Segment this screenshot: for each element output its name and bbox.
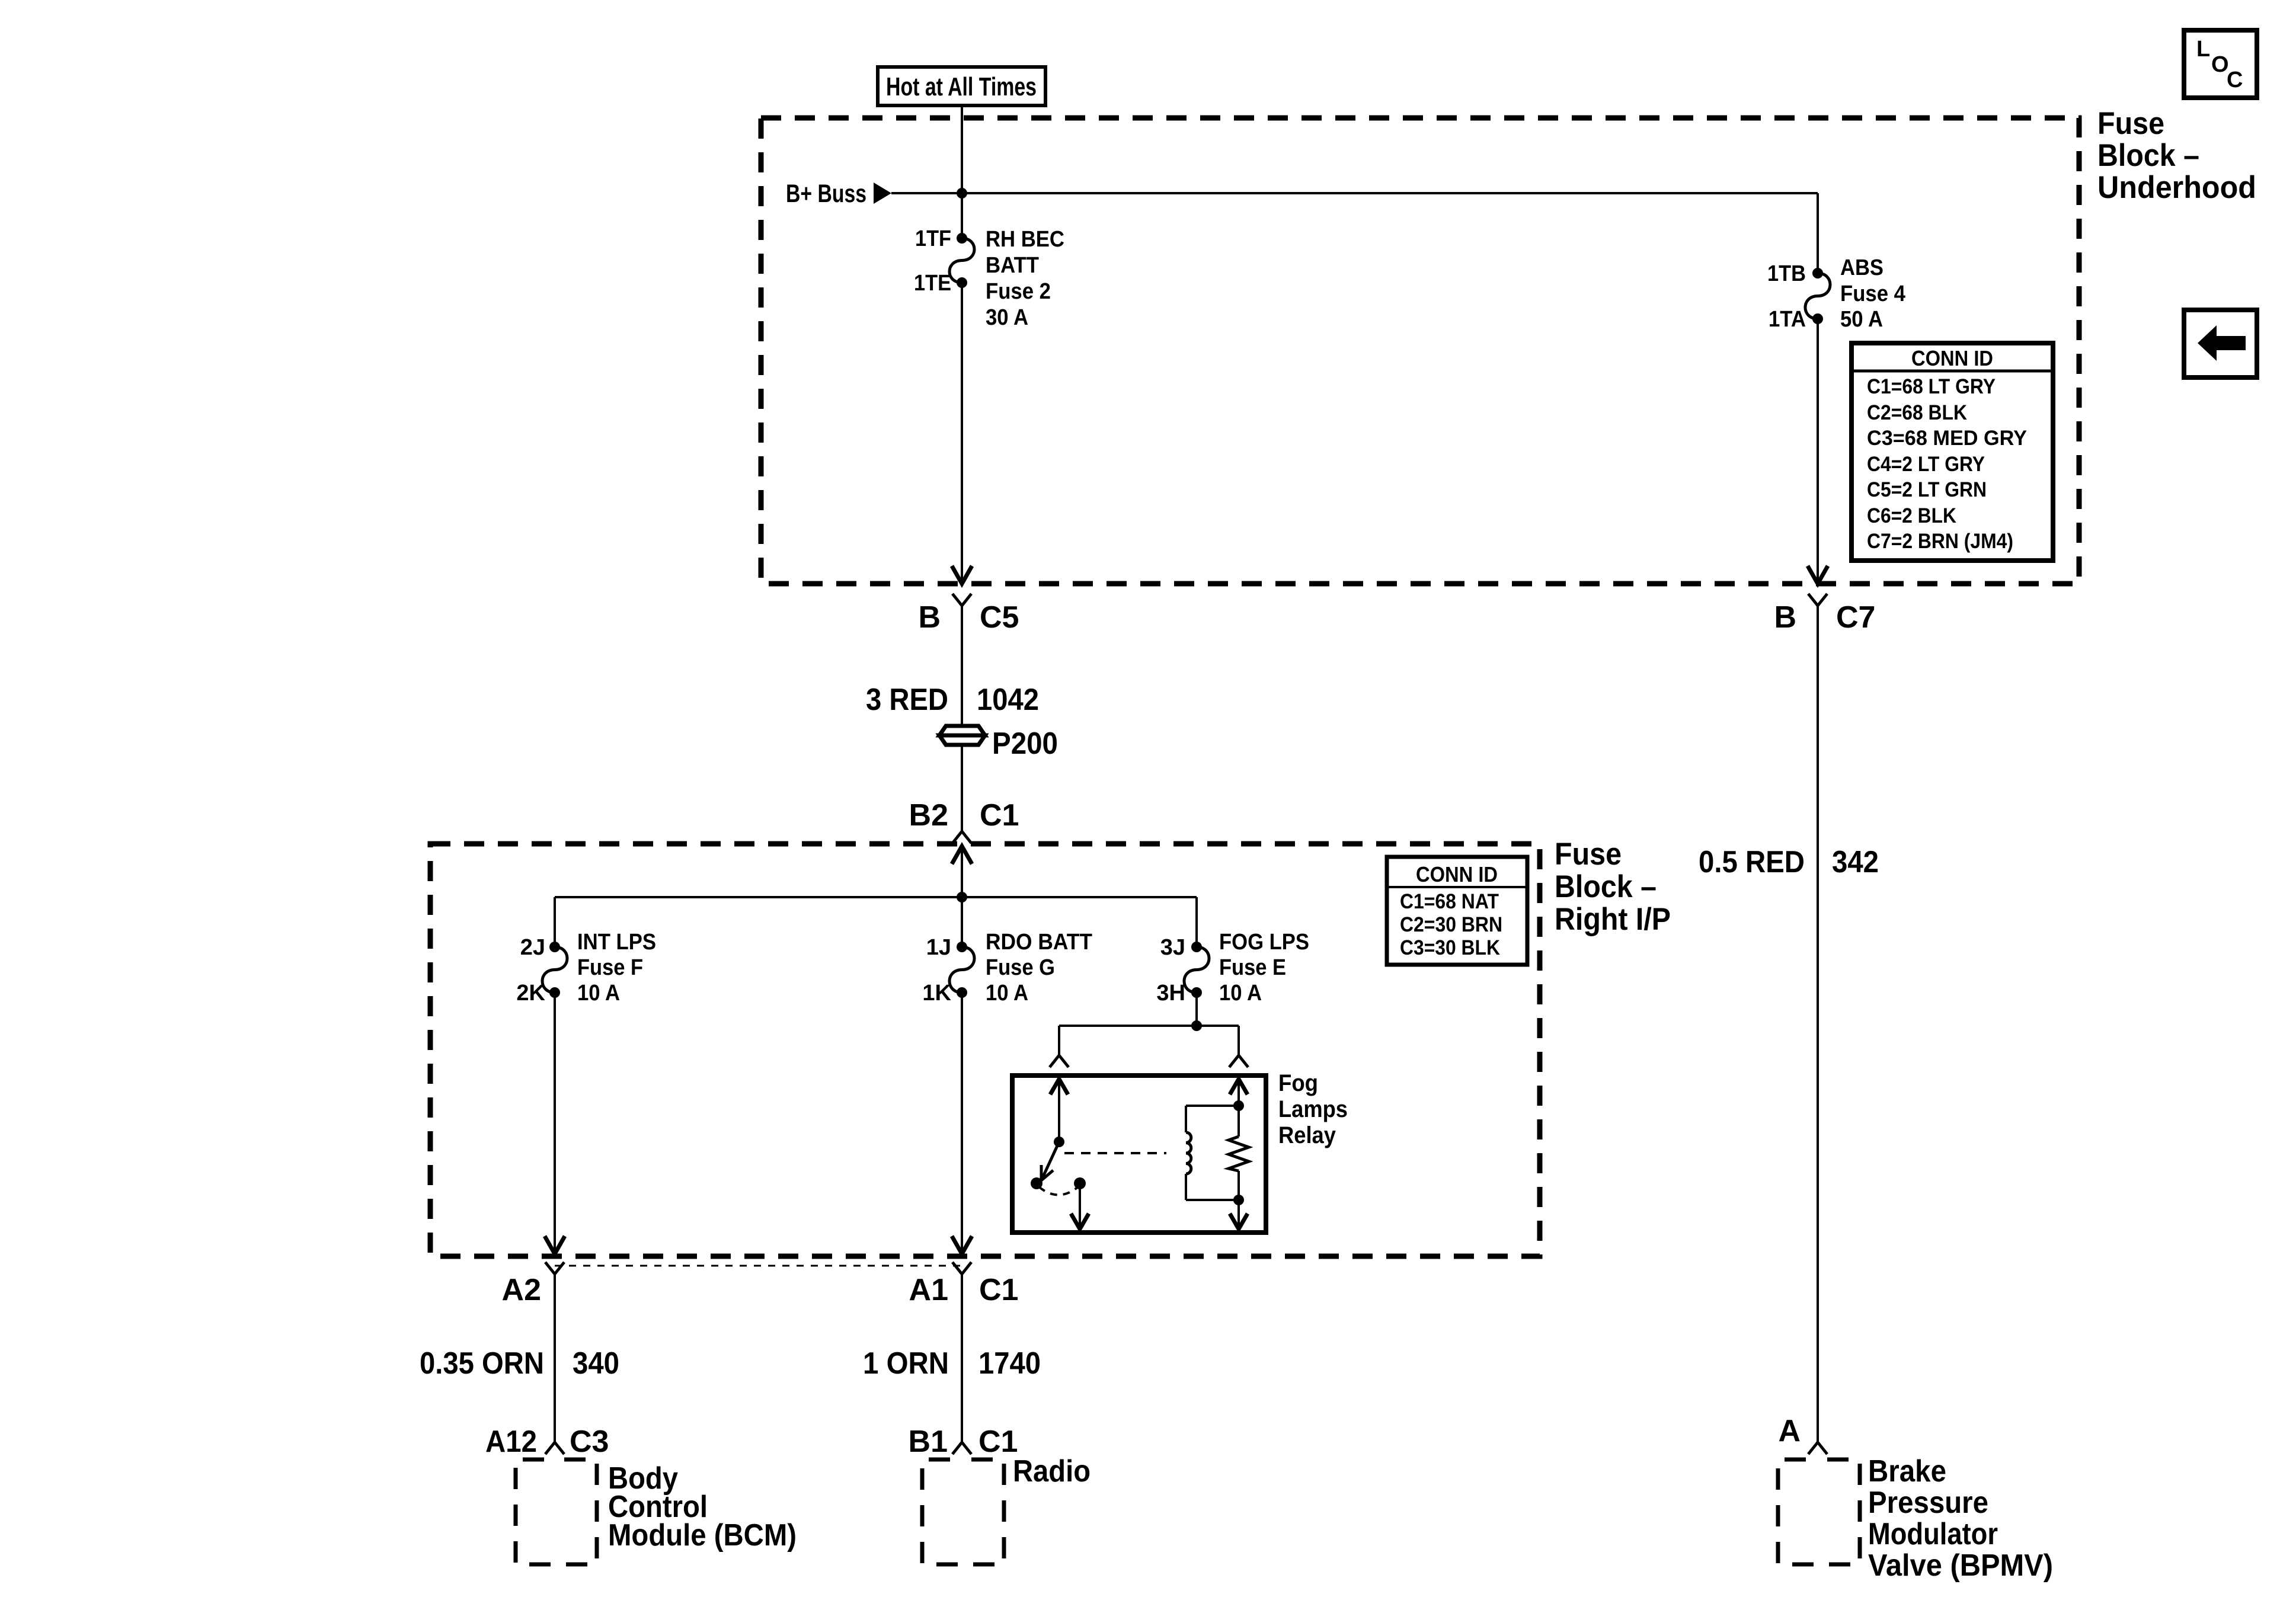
LOC symbol box bbox=[2184, 30, 2257, 98]
resistor bottom wire bbox=[1237, 1171, 1240, 1200]
CONN ID table (underhood) bbox=[1851, 343, 2053, 561]
svg-text:Fuse E: Fuse E bbox=[1219, 955, 1286, 980]
svg-text:C2=68 BLK: C2=68 BLK bbox=[1867, 401, 1967, 424]
svg-text:Lamps: Lamps bbox=[1278, 1096, 1348, 1122]
fog branch horizontal bbox=[1059, 1025, 1239, 1027]
back-arrow box bbox=[2184, 310, 2257, 377]
arrow at C7 boundary bbox=[1808, 566, 1828, 584]
svg-text:C1=68 NAT: C1=68 NAT bbox=[1400, 890, 1499, 913]
svg-text:A1: A1 bbox=[909, 1273, 948, 1307]
dashed box: Radio bbox=[922, 1459, 1004, 1564]
svg-text:0.5 RED: 0.5 RED bbox=[1699, 845, 1805, 879]
svg-text:Modulator: Modulator bbox=[1868, 1517, 1998, 1551]
svg-text:C3=30 BLK: C3=30 BLK bbox=[1400, 936, 1500, 959]
connector Y at B/C7 bbox=[1808, 594, 1827, 606]
dashed box: Fuse Block - Underhood bbox=[761, 118, 2079, 584]
svg-text:A12: A12 bbox=[485, 1425, 537, 1459]
svg-text:Block –: Block – bbox=[2097, 138, 2199, 173]
arrow at A1 boundary bbox=[952, 1236, 972, 1254]
connector Y at B1/C1 bbox=[952, 1442, 971, 1454]
splice grommet P200 bbox=[939, 726, 985, 735]
svg-text:0.35 ORN: 0.35 ORN bbox=[420, 1346, 544, 1381]
connector Y at A12/C3 bbox=[545, 1442, 564, 1454]
wire: Fuse 2 to C5 exit bbox=[961, 283, 963, 582]
junction dot on B+ buss bbox=[957, 188, 967, 199]
svg-text:Relay: Relay bbox=[1278, 1122, 1336, 1148]
relay pin arrow (87 down) bbox=[1071, 1214, 1089, 1229]
svg-text:10 A: 10 A bbox=[577, 981, 620, 1006]
svg-text:Block –: Block – bbox=[1555, 869, 1657, 904]
connector Y at A/BPMV bbox=[1808, 1442, 1827, 1454]
dashed box: Fuse Block - Right I/P bbox=[430, 844, 1540, 1256]
dashed actuation link bbox=[1064, 1152, 1166, 1154]
svg-text:1042: 1042 bbox=[977, 683, 1039, 717]
fuse Fuse F (INT LPS 10 A) bbox=[549, 942, 560, 952]
switch arm (movable contact) bbox=[1041, 1142, 1059, 1180]
junction dot fog split bbox=[1191, 1020, 1202, 1031]
connector Y at B/C5 bbox=[952, 594, 971, 606]
svg-text:30 A: 30 A bbox=[986, 305, 1028, 330]
svg-text:B1: B1 bbox=[909, 1425, 948, 1459]
svg-text:1 ORN: 1 ORN bbox=[863, 1346, 949, 1381]
wire: C5 to P200 bbox=[961, 606, 963, 726]
bus wire in I/P block bbox=[555, 896, 1197, 898]
svg-text:1TB: 1TB bbox=[1767, 261, 1806, 286]
wire: junction to relay pin 85 bbox=[1237, 1200, 1240, 1225]
svg-text:342: 342 bbox=[1832, 845, 1879, 879]
svg-text:ABS: ABS bbox=[1840, 255, 1884, 280]
svg-text:C2=30 BRN: C2=30 BRN bbox=[1400, 913, 1502, 936]
svg-text:1740: 1740 bbox=[978, 1346, 1041, 1381]
relay resistor bbox=[1229, 1137, 1249, 1171]
wire: B+ buss horizontal bbox=[891, 192, 1818, 194]
svg-text:1TF: 1TF bbox=[915, 226, 951, 251]
wire: C7 to BPMV bbox=[1817, 606, 1819, 1442]
svg-text:10 A: 10 A bbox=[986, 981, 1028, 1006]
svg-text:A2: A2 bbox=[502, 1273, 541, 1307]
svg-text:2J: 2J bbox=[520, 935, 545, 960]
svg-text:C7=2 BRN (JM4): C7=2 BRN (JM4) bbox=[1867, 530, 2013, 553]
svg-text:C1=68 LT GRY: C1=68 LT GRY bbox=[1867, 375, 1996, 398]
svg-text:3J: 3J bbox=[1160, 935, 1185, 960]
dashed box: Body Control Module bbox=[516, 1459, 597, 1564]
svg-text:B: B bbox=[1774, 600, 1796, 635]
svg-text:A: A bbox=[1778, 1414, 1801, 1448]
connector Y at A2 bbox=[545, 1262, 564, 1274]
wire: Fuse F to A2 exit bbox=[554, 993, 556, 1253]
junction dot bus/main bbox=[957, 892, 967, 902]
svg-text:C7: C7 bbox=[1836, 600, 1875, 635]
svg-text:3 RED: 3 RED bbox=[866, 683, 948, 717]
relay pin arrow (right, 86) bbox=[1230, 1079, 1248, 1094]
label box: Hot at All Times bbox=[878, 67, 1045, 105]
svg-text:Fuse G: Fuse G bbox=[986, 955, 1055, 980]
wire: A2 to BCM bbox=[554, 1274, 556, 1442]
svg-text:CONN ID: CONN ID bbox=[1416, 862, 1498, 886]
svg-text:340: 340 bbox=[573, 1346, 619, 1381]
fuse Fuse G (RDO BATT 10 A) bbox=[957, 942, 967, 952]
svg-text:B+ Buss: B+ Buss bbox=[786, 180, 866, 208]
svg-text:1K: 1K bbox=[922, 981, 951, 1006]
svg-text:Radio: Radio bbox=[1013, 1454, 1091, 1489]
svg-text:Underhood: Underhood bbox=[2097, 170, 2256, 205]
relay box: Fog Lamps Relay bbox=[1012, 1076, 1266, 1233]
wire: Fuse G to A1 exit bbox=[961, 993, 963, 1253]
svg-text:INT LPS: INT LPS bbox=[577, 930, 656, 955]
svg-text:Brake: Brake bbox=[1868, 1454, 1946, 1489]
svg-text:C3=68 MED GRY: C3=68 MED GRY bbox=[1867, 427, 2027, 450]
relay pin arrow (left, 30) bbox=[1050, 1079, 1068, 1094]
connector Y into relay (right) bbox=[1229, 1055, 1248, 1067]
relay coil bbox=[1186, 1132, 1191, 1174]
wire: 3H to fog branch split bbox=[1195, 993, 1198, 1026]
wire: B+ buss drop to ABS fuse bbox=[1817, 193, 1819, 273]
svg-text:C1: C1 bbox=[980, 798, 1019, 833]
coil top wire bbox=[1186, 1105, 1239, 1107]
fuse Fuse E (FOG LPS 10 A) bbox=[1191, 942, 1202, 952]
resistor top wire bbox=[1237, 1106, 1240, 1137]
arrow into underhood boundary at C5 bbox=[952, 566, 972, 584]
svg-text:C4=2 LT GRY: C4=2 LT GRY bbox=[1867, 453, 1985, 476]
fuse Fuse 2 (RH BEC BATT 30 A) bbox=[957, 233, 967, 244]
svg-text:3H: 3H bbox=[1156, 981, 1185, 1006]
CONN ID table (right I/P) bbox=[1387, 857, 1527, 965]
svg-text:2K: 2K bbox=[516, 981, 545, 1006]
dashed arc (alternate switch position) bbox=[1039, 1187, 1078, 1195]
thin dashed connector-face line bbox=[555, 1265, 962, 1267]
connector Y at B2/C1 bbox=[952, 831, 971, 843]
svg-text:L: L bbox=[2196, 37, 2210, 62]
wire: switch to relay pin 87 bbox=[1079, 1183, 1081, 1225]
svg-text:1J: 1J bbox=[926, 935, 951, 960]
switch terminal dot (right) bbox=[1074, 1177, 1086, 1189]
arrow into I/P boundary at C1 bbox=[952, 846, 972, 864]
svg-text:RDO BATT: RDO BATT bbox=[986, 930, 1092, 955]
svg-text:BATT: BATT bbox=[986, 253, 1039, 278]
svg-text:C5=2 LT GRN: C5=2 LT GRN bbox=[1867, 478, 1987, 501]
svg-text:C6=2 BLK: C6=2 BLK bbox=[1867, 504, 1956, 527]
coil bottom wire bbox=[1185, 1174, 1187, 1200]
wire: A1 to Radio bbox=[961, 1274, 963, 1442]
fuse Fuse 4 (ABS 50 A) bbox=[1812, 268, 1823, 279]
svg-text:B2: B2 bbox=[909, 798, 948, 833]
svg-text:Fog: Fog bbox=[1278, 1070, 1318, 1096]
connector Y at A1/C1 bbox=[952, 1262, 971, 1274]
svg-text:Right I/P: Right I/P bbox=[1555, 902, 1671, 937]
junction dot coil top bbox=[1233, 1100, 1244, 1111]
junction dot coil bottom bbox=[1233, 1195, 1244, 1205]
switch pivot dot bbox=[1054, 1137, 1064, 1147]
svg-text:C5: C5 bbox=[980, 600, 1019, 635]
svg-text:Fuse 4: Fuse 4 bbox=[1840, 281, 1905, 306]
switch terminal dot (left) bbox=[1031, 1177, 1043, 1189]
svg-text:C: C bbox=[2227, 68, 2243, 92]
svg-text:1TE: 1TE bbox=[914, 271, 951, 296]
svg-text:CONN ID: CONN ID bbox=[1911, 346, 1993, 370]
svg-text:Pressure: Pressure bbox=[1868, 1486, 1988, 1520]
arrow at A2 boundary bbox=[545, 1236, 565, 1254]
relay right wire to coil/resistor junction bbox=[1237, 1079, 1240, 1106]
relay pin arrow (85 down) bbox=[1230, 1214, 1248, 1229]
svg-text:C3: C3 bbox=[570, 1425, 609, 1459]
svg-text:C1: C1 bbox=[978, 1425, 1018, 1459]
connector Y into relay (left) bbox=[1050, 1055, 1069, 1067]
svg-text:FOG LPS: FOG LPS bbox=[1219, 930, 1309, 955]
wire: relay left pin to switch pivot bbox=[1058, 1079, 1060, 1142]
svg-text:RH BEC: RH BEC bbox=[986, 227, 1064, 252]
svg-text:Fuse: Fuse bbox=[2097, 106, 2164, 141]
wire: C7 exit from underhood bbox=[1817, 319, 1819, 582]
svg-text:1TA: 1TA bbox=[1769, 307, 1806, 332]
svg-text:Fuse: Fuse bbox=[1555, 837, 1622, 872]
svg-text:Module (BCM): Module (BCM) bbox=[608, 1518, 797, 1553]
svg-text:50 A: 50 A bbox=[1840, 307, 1883, 332]
svg-text:10 A: 10 A bbox=[1219, 981, 1262, 1006]
svg-text:B: B bbox=[918, 600, 941, 635]
wire: Hot at All Times feed into Fuse Block - Underhood bbox=[961, 105, 963, 238]
svg-text:Fuse 2: Fuse 2 bbox=[986, 279, 1051, 304]
wire: P200 to B2/C1 bbox=[961, 745, 963, 831]
wire: C1 entry to bus bbox=[961, 846, 963, 947]
svg-text:Valve (BPMV): Valve (BPMV) bbox=[1868, 1548, 2053, 1583]
svg-text:C1: C1 bbox=[979, 1273, 1018, 1307]
svg-text:Hot at All Times: Hot at All Times bbox=[886, 72, 1037, 101]
dashed box: Brake Pressure Modulator Valve bbox=[1778, 1459, 1860, 1564]
svg-text:P200: P200 bbox=[992, 726, 1058, 761]
svg-text:Fuse F: Fuse F bbox=[577, 955, 643, 980]
